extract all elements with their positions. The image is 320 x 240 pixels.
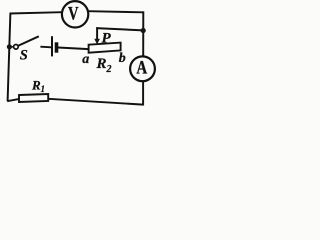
svg-text:A: A [136, 59, 147, 79]
voltmeter V circle [62, 1, 88, 27]
wire wiper horizontal [96, 28, 143, 30]
wiper arrowhead [94, 39, 100, 45]
svg-text:V: V [68, 4, 79, 25]
resistor R1 body [19, 94, 48, 102]
svg-text:S: S [20, 47, 28, 63]
wire bottom left corner to R1 [7, 99, 19, 101]
wire right vertical lower [142, 81, 144, 106]
svg-text:2: 2 [106, 64, 112, 75]
svg-text:R: R [96, 56, 107, 72]
ammeter A circle [130, 56, 155, 81]
svg-text:1: 1 [41, 84, 46, 94]
rheostat R2 body [89, 43, 121, 53]
wire switch to battery [40, 46, 51, 49]
junction dot left at switch [7, 44, 12, 49]
wire node dot to switch pivot [9, 46, 13, 48]
wire right vertical upper [142, 11, 144, 56]
svg-text:R: R [31, 78, 41, 93]
battery long plate [51, 36, 53, 56]
wire battery plus to node a [58, 48, 89, 50]
junction dot right [141, 28, 146, 33]
switch S pivot circle [14, 45, 19, 50]
switch blade [18, 36, 39, 46]
wire R1 to bottom right corner [48, 99, 143, 105]
wire top left to voltmeter [10, 12, 62, 13]
svg-text:b: b [119, 51, 126, 66]
svg-text:P: P [102, 30, 112, 46]
battery short plate [55, 42, 59, 52]
wire wiper vertical [96, 27, 98, 40]
wire top right from voltmeter to corner [89, 11, 144, 12]
svg-text:a: a [82, 52, 89, 67]
background [0, 0, 156, 112]
wire left vertical [8, 13, 11, 102]
